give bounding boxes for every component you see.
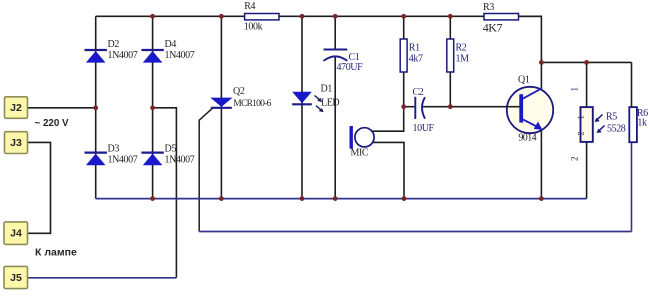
wire R6 top vertical [631, 62, 633, 107]
diode D3 [85, 153, 107, 166]
diode D2 [85, 50, 107, 63]
wire ground rail 1 [96, 198, 587, 200]
svg-text:D2: D2 [108, 39, 120, 50]
diode D4 [141, 50, 163, 63]
svg-text:R2: R2 [456, 43, 467, 54]
wire top rail [96, 15, 542, 17]
svg-text:4K7: 4K7 [483, 21, 503, 35]
junction dots base line [401, 104, 406, 109]
svg-text:D5: D5 [165, 144, 177, 155]
svg-text:C2: C2 [413, 87, 424, 98]
svg-text:К лампе: К лампе [35, 247, 77, 259]
wire R6 bottom vertical [631, 142, 633, 231]
resistor R3 [484, 14, 519, 20]
resistor R2 [447, 39, 454, 72]
wire R3 right to collector [519, 16, 542, 90]
resistor R6 [629, 107, 637, 142]
photoresistor R5 [575, 107, 604, 142]
connector J3 [5, 132, 28, 154]
wire J2 to bridge left midpoint [28, 107, 96, 109]
svg-text:D3: D3 [108, 144, 120, 155]
capacitor C2 [415, 97, 425, 119]
wire J5 horizontal [28, 277, 177, 279]
wire R1 branch vertical [403, 16, 405, 106]
svg-text:D4: D4 [165, 39, 177, 50]
junction dots top rail [150, 14, 155, 19]
svg-text:LED: LED [321, 98, 339, 109]
svg-text:4k7: 4k7 [409, 54, 423, 65]
svg-text:9014: 9014 [518, 133, 536, 144]
capacitor C1 [324, 50, 348, 61]
transistor Q1 [506, 87, 554, 133]
wire gate rail 2 [199, 231, 631, 233]
svg-text:1: 1 [575, 116, 585, 120]
svg-text:2: 2 [569, 157, 579, 161]
svg-text:1N4007: 1N4007 [165, 155, 195, 166]
wire left bridge vertical [95, 16, 97, 198]
svg-text:10UF: 10UF [413, 123, 435, 134]
svg-text:MIC: MIC [351, 147, 369, 158]
connector J2 [5, 97, 28, 119]
svg-text:1N4007: 1N4007 [108, 155, 138, 166]
svg-text:1N4007: 1N4007 [165, 50, 195, 61]
junction dots collector node [539, 60, 544, 65]
svg-text:R5: R5 [606, 112, 617, 123]
wire MIC bottom [373, 142, 405, 198]
junction dots AC line [93, 105, 98, 110]
wire R5 bottom vertical [586, 142, 588, 199]
wire bridge right midpoint to J5 drop [153, 108, 177, 278]
svg-text:1M: 1M [456, 54, 470, 65]
wire right bridge vertical [152, 16, 154, 198]
svg-text:J5: J5 [10, 272, 22, 284]
svg-text:5528: 5528 [607, 124, 626, 135]
LED D1 [292, 92, 324, 113]
svg-text:470UF: 470UF [337, 62, 364, 73]
svg-text:100k: 100k [244, 21, 263, 32]
svg-text:1k: 1k [637, 118, 647, 129]
resistor R1 [400, 39, 407, 72]
diode D5 [141, 153, 163, 166]
thyristor Q2 [210, 98, 232, 108]
wire C2 right to Q1 base [421, 106, 519, 108]
wire J3-J4 bracket [28, 142, 51, 233]
microphone MIC [350, 126, 375, 149]
wire C2 left [404, 106, 416, 108]
resistor R4 [245, 14, 279, 20]
wire collector node horizontal [541, 61, 631, 63]
junction dots rail 1 [150, 196, 155, 201]
svg-text:R4: R4 [244, 1, 255, 12]
svg-text:J4: J4 [10, 227, 22, 239]
connector J5 [4, 266, 28, 288]
connector J4 [4, 222, 28, 245]
svg-text:J3: J3 [10, 137, 22, 149]
svg-text:Q1: Q1 [518, 75, 530, 86]
svg-text:D1: D1 [321, 84, 333, 95]
svg-text:1: 1 [569, 87, 579, 91]
svg-text:1N4007: 1N4007 [108, 50, 138, 61]
wire LED branch vertical [301, 16, 303, 198]
wire Q2 gate lead [199, 108, 212, 231]
svg-text:2: 2 [575, 132, 585, 136]
svg-text:~ 220 V: ~ 220 V [35, 118, 70, 129]
wire MIC top [372, 107, 404, 132]
wire C1 branch vertical [334, 16, 336, 198]
wire R5 top vertical [586, 62, 588, 107]
svg-text:Q2: Q2 [233, 86, 245, 97]
svg-text:J2: J2 [10, 102, 22, 114]
wire R2 branch vertical [449, 16, 451, 106]
svg-text:R3: R3 [483, 2, 494, 13]
svg-text:R1: R1 [409, 43, 420, 54]
wire Q1 emitter vertical [540, 130, 542, 199]
svg-text:MCR100-6: MCR100-6 [233, 99, 271, 109]
wire Q2 branch vertical [220, 16, 222, 198]
